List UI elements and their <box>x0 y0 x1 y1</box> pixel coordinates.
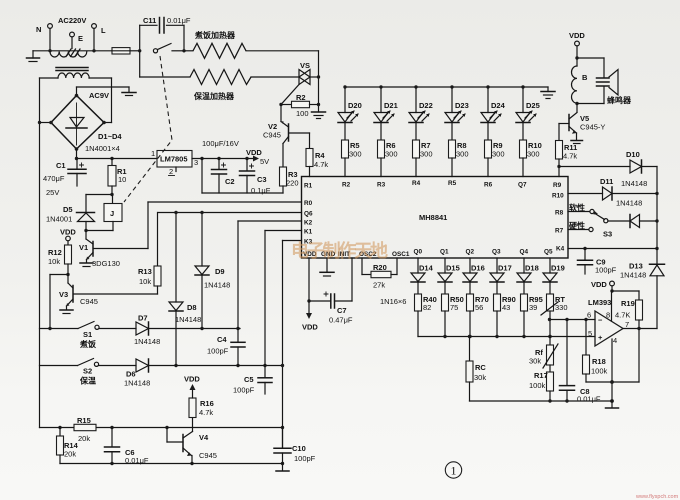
junction triac right <box>317 75 320 78</box>
svg-text:300: 300 <box>492 150 505 159</box>
svg-text:10k: 10k <box>48 257 60 266</box>
svg-text:4.7k: 4.7k <box>314 160 328 169</box>
svg-text:1: 1 <box>151 149 155 158</box>
svg-text:R9: R9 <box>553 182 562 189</box>
resistor R40 <box>415 294 422 337</box>
wire pin6 line <box>548 318 595 321</box>
svg-text:300: 300 <box>349 150 362 159</box>
LED D20 <box>338 87 358 140</box>
svg-text:1N4148: 1N4148 <box>621 179 647 188</box>
diode D14 <box>411 258 425 294</box>
svg-text:R16: R16 <box>200 399 214 408</box>
diode D9 <box>195 213 209 329</box>
resistor R8 <box>449 140 456 177</box>
resistor R50 <box>442 294 449 337</box>
wire R12 to S1 <box>50 275 68 329</box>
bridge rectifier D1-D4 <box>51 96 104 150</box>
resistor R1 <box>108 159 116 195</box>
svg-text:27k: 27k <box>373 281 385 290</box>
svg-text:R4: R4 <box>315 151 325 160</box>
bridge inner diode <box>66 103 87 145</box>
wire 5V rail <box>192 156 259 162</box>
wire resistor bottom rail <box>418 335 595 338</box>
svg-text:C945: C945 <box>199 451 217 460</box>
pin 2 <box>169 167 177 176</box>
wire gnd rail LM393 <box>470 399 613 402</box>
svg-text:100k: 100k <box>591 367 608 376</box>
node L terminal <box>92 24 106 51</box>
capacitor C8 <box>560 320 575 402</box>
wire right bus upper <box>655 167 658 251</box>
svg-text:43: 43 <box>502 303 510 312</box>
wire R18 bottom <box>586 329 639 383</box>
svg-text:D8: D8 <box>187 303 197 312</box>
ground below R2 <box>312 105 326 119</box>
wire R7 pin hard <box>568 227 593 231</box>
resistor R4 <box>306 149 313 177</box>
svg-text:R2: R2 <box>342 182 351 189</box>
svg-text:4.7K: 4.7K <box>615 311 630 320</box>
svg-text:0.1μF: 0.1μF <box>251 186 271 195</box>
IC pin labels left <box>304 183 313 246</box>
wire bottom gnd rail <box>60 462 284 465</box>
node VDD R12 <box>60 228 76 246</box>
wire gnd rail under C2 C3 <box>202 159 283 194</box>
wire K3 pin <box>283 240 302 242</box>
svg-text:R3: R3 <box>377 182 386 189</box>
capacitor C11 box <box>140 18 184 51</box>
junction C9 <box>583 247 586 250</box>
svg-text:6: 6 <box>587 311 591 320</box>
svg-text:470μF: 470μF <box>43 174 65 183</box>
resistor R20 <box>362 258 397 278</box>
svg-text:0.01μF: 0.01μF <box>167 16 191 25</box>
svg-text:1N4148: 1N4148 <box>124 379 150 388</box>
svg-text:R13: R13 <box>138 267 152 276</box>
svg-text:LM393: LM393 <box>588 298 611 307</box>
wire bridge bottom to rail <box>76 149 78 159</box>
svg-text:Q2: Q2 <box>466 249 475 256</box>
svg-text:VDD: VDD <box>184 375 200 384</box>
capacitor C9 <box>578 249 593 275</box>
svg-text:39: 39 <box>529 303 537 312</box>
resistor R10 <box>520 140 527 177</box>
LED D24 <box>481 87 501 140</box>
svg-text:R4: R4 <box>412 180 421 187</box>
junction N <box>48 49 51 52</box>
svg-text:8: 8 <box>606 311 610 320</box>
svg-text:D11: D11 <box>600 177 613 186</box>
bridge vertex dots <box>49 94 106 151</box>
opamp LM393 <box>595 311 623 346</box>
svg-text:L: L <box>101 26 106 35</box>
svg-text:Q4: Q4 <box>520 249 529 256</box>
svg-text:Q3: Q3 <box>492 249 501 256</box>
svg-text:硬性: 硬性 <box>569 221 585 231</box>
svg-text:R17: R17 <box>534 371 548 380</box>
svg-text:MH8841: MH8841 <box>419 213 447 222</box>
wire K2 pin <box>238 221 302 329</box>
svg-text:D13: D13 <box>629 262 643 271</box>
diode D6 <box>136 359 149 372</box>
node VDD LM393 <box>591 280 614 293</box>
junction RT chain <box>548 335 551 338</box>
wire heater2 to triac <box>251 76 299 78</box>
svg-text:1N16×6: 1N16×6 <box>380 297 406 306</box>
capacitor C6 <box>105 428 120 464</box>
capacitor C3 <box>240 159 255 194</box>
svg-text:D15: D15 <box>446 264 460 273</box>
regulator LM7805 <box>157 151 192 168</box>
ground LED rail <box>541 87 555 99</box>
svg-text:D20: D20 <box>348 101 362 110</box>
wire VDD pin IC <box>302 258 318 332</box>
svg-text:7: 7 <box>625 320 629 329</box>
wire D6 line <box>149 364 283 367</box>
svg-text:5: 5 <box>588 329 592 338</box>
resistor R11 <box>556 141 563 177</box>
resistor R3 <box>280 167 287 193</box>
svg-text:S1: S1 <box>83 330 92 339</box>
svg-text:Q0: Q0 <box>414 249 423 256</box>
svg-text:煮饭: 煮饭 <box>79 339 96 349</box>
svg-text:1N4001: 1N4001 <box>46 215 72 224</box>
LED D22 <box>409 87 429 140</box>
svg-text:3: 3 <box>194 158 198 167</box>
earth symbol at E <box>66 49 80 57</box>
svg-text:C7: C7 <box>337 306 347 315</box>
svg-text:1N4001×4: 1N4001×4 <box>85 144 120 153</box>
ground pin4 <box>606 401 619 408</box>
transistor V4 <box>167 418 193 464</box>
wire J bottom to D5 <box>84 229 113 232</box>
wire LED top rail <box>343 85 548 88</box>
IC pin labels bottom <box>303 249 553 259</box>
svg-text:D1~D4: D1~D4 <box>98 132 122 141</box>
diode D17 <box>490 258 504 294</box>
resistor R7 <box>413 140 420 177</box>
svg-text:C2: C2 <box>225 177 235 186</box>
svg-text:蜂鸣器: 蜂鸣器 <box>607 95 632 105</box>
wire R1 junction to J <box>86 193 114 204</box>
ground GND pin <box>320 258 334 276</box>
diode D18 <box>517 258 531 294</box>
svg-text:D14: D14 <box>419 264 434 273</box>
svg-text:300: 300 <box>420 150 433 159</box>
svg-text:AC220V: AC220V <box>58 16 86 25</box>
junction R2 right <box>317 103 320 106</box>
svg-text:56: 56 <box>475 303 483 312</box>
svg-text:R1: R1 <box>304 183 313 190</box>
svg-text:R12: R12 <box>48 248 62 257</box>
svg-text:电子制作天地: 电子制作天地 <box>291 240 388 261</box>
LED D21 <box>374 87 394 140</box>
resistor R9 <box>485 140 492 177</box>
svg-text:100k: 100k <box>529 381 546 390</box>
svg-text:D16: D16 <box>471 264 485 273</box>
switch power <box>138 44 186 53</box>
svg-text:1N4148: 1N4148 <box>620 271 646 280</box>
svg-text:AC9V: AC9V <box>89 91 109 100</box>
svg-text:5V: 5V <box>260 157 269 166</box>
transistor V1 <box>80 231 148 267</box>
heater2 resistor zigzag <box>190 70 251 85</box>
LED D23 <box>445 87 465 140</box>
resistor R2 <box>281 101 319 107</box>
svg-text:R8: R8 <box>555 210 564 217</box>
junction C10 top <box>281 426 284 429</box>
svg-text:300: 300 <box>456 150 469 159</box>
junction R12 bottom <box>66 273 69 276</box>
svg-text:D21: D21 <box>384 101 398 110</box>
svg-text:1N4148: 1N4148 <box>204 281 230 290</box>
svg-text:−: − <box>598 316 603 325</box>
svg-text:330: 330 <box>555 303 568 312</box>
svg-text:R15: R15 <box>77 416 91 425</box>
wire bottom rail R15 <box>40 426 283 429</box>
svg-text:K4: K4 <box>556 246 565 253</box>
wire mains horizontal <box>33 50 112 52</box>
relay J <box>104 204 122 231</box>
svg-text:+: + <box>598 333 603 342</box>
svg-text:R20: R20 <box>373 263 387 272</box>
svg-text:4.7k: 4.7k <box>199 408 213 417</box>
IC pin labels right <box>552 193 565 253</box>
resistor R13 <box>154 213 161 295</box>
page number 1 <box>445 462 461 478</box>
ground at N <box>27 51 40 62</box>
IC pin labels top <box>342 180 562 189</box>
capacitor C4 <box>231 329 245 366</box>
resistor RC <box>466 335 473 401</box>
svg-text:VDD: VDD <box>246 148 262 157</box>
svg-text:LM7805: LM7805 <box>160 155 188 164</box>
svg-text:D19: D19 <box>551 264 565 273</box>
svg-text:D6: D6 <box>126 370 136 379</box>
svg-text:220: 220 <box>286 179 299 188</box>
wire output pin7 <box>623 327 657 330</box>
svg-text:30k: 30k <box>529 357 541 366</box>
IC MH8841 <box>302 177 569 259</box>
resistor R17 <box>547 372 554 401</box>
svg-text:C3: C3 <box>257 175 267 184</box>
wire secondary right to bridge <box>104 78 112 123</box>
svg-text:R2: R2 <box>296 93 306 102</box>
switch S1 <box>40 322 137 331</box>
svg-text:煮饭加热器: 煮饭加热器 <box>194 30 236 40</box>
svg-text:VDD: VDD <box>569 31 585 40</box>
svg-text:D22: D22 <box>419 101 433 110</box>
svg-text:保温: 保温 <box>79 376 96 386</box>
svg-text:1N4148: 1N4148 <box>175 315 201 324</box>
svg-text:C945: C945 <box>80 297 98 306</box>
node N terminal <box>36 24 52 51</box>
transistor V2 <box>281 105 310 168</box>
wire heater1 to corner <box>246 51 319 105</box>
wire left rail <box>39 78 41 428</box>
svg-text:300: 300 <box>527 150 540 159</box>
wire keepwarm branch <box>140 51 190 77</box>
transformer core <box>56 68 88 71</box>
svg-text:D17: D17 <box>498 264 512 273</box>
svg-text:25V: 25V <box>46 188 59 197</box>
transformer T secondary <box>40 73 112 78</box>
transistor V5 <box>559 113 583 144</box>
capacitor C5 <box>258 366 272 395</box>
resistor R5 <box>342 140 349 177</box>
svg-text:www.flyspch.com: www.flyspch.com <box>635 494 679 500</box>
svg-text:R0: R0 <box>304 200 313 207</box>
svg-text:VDD: VDD <box>60 228 76 237</box>
wire Q6 pin <box>158 211 302 214</box>
diode D13 <box>650 249 665 329</box>
svg-text:2: 2 <box>169 167 173 176</box>
diode D16 <box>463 258 477 294</box>
diode D5 <box>77 195 95 231</box>
svg-text:1N4148: 1N4148 <box>134 337 160 346</box>
switch S3 <box>594 211 631 223</box>
diode D15 <box>438 258 452 294</box>
svg-text:K1: K1 <box>304 229 313 236</box>
wire switch to heater1 <box>184 50 193 52</box>
svg-text:C1: C1 <box>56 161 66 170</box>
svg-text:C4: C4 <box>217 335 227 344</box>
svg-text:D18: D18 <box>525 264 539 273</box>
svg-text:82: 82 <box>423 303 431 312</box>
svg-text:100μF/16V: 100μF/16V <box>202 139 239 148</box>
svg-text:100pF: 100pF <box>595 266 617 275</box>
resistor RT <box>541 294 558 337</box>
svg-text:R18: R18 <box>592 357 606 366</box>
capacitor C1 <box>68 159 86 187</box>
svg-text:D5: D5 <box>63 205 73 214</box>
svg-text:V4: V4 <box>199 433 209 442</box>
svg-text:4: 4 <box>613 336 617 345</box>
svg-text:C945-Y: C945-Y <box>580 123 605 132</box>
dashed linkage relay to switch <box>124 56 172 202</box>
junction L <box>92 49 95 52</box>
svg-text:Q5: Q5 <box>544 249 553 256</box>
svg-text:4.7k: 4.7k <box>563 152 577 161</box>
svg-text:30k: 30k <box>474 373 486 382</box>
svg-text:D24: D24 <box>491 101 506 110</box>
junction R2 left <box>279 103 282 106</box>
resistor R95 <box>521 294 528 337</box>
svg-text:J: J <box>110 209 114 218</box>
resistor R16 <box>189 384 196 418</box>
svg-text:D23: D23 <box>455 101 469 110</box>
svg-text:100pF: 100pF <box>233 386 255 395</box>
svg-text:VS: VS <box>300 61 310 70</box>
transistor V3 <box>60 275 158 314</box>
wire pin8 <box>611 291 613 321</box>
svg-text:VDD: VDD <box>302 323 318 332</box>
svg-text:VDD: VDD <box>591 280 607 289</box>
svg-text:C5: C5 <box>244 375 254 384</box>
svg-text:0.47μF: 0.47μF <box>329 316 353 325</box>
svg-text:K2: K2 <box>304 220 313 227</box>
svg-text:R6: R6 <box>484 182 493 189</box>
resistor R18 <box>583 320 590 383</box>
svg-text:Q6: Q6 <box>304 211 313 218</box>
svg-text:软性: 软性 <box>569 203 585 213</box>
wire R0 pin <box>148 202 302 249</box>
LED D25 <box>516 87 536 140</box>
svg-text:D9: D9 <box>215 267 225 276</box>
svg-text:C11: C11 <box>143 16 156 25</box>
transformer T primary <box>50 52 87 58</box>
svg-text:保温加热器: 保温加热器 <box>193 91 235 101</box>
svg-text:R5: R5 <box>448 180 457 187</box>
svg-text:N: N <box>36 25 41 34</box>
svg-text:V3: V3 <box>59 290 68 299</box>
svg-text:100pF: 100pF <box>207 347 229 356</box>
svg-text:Q1: Q1 <box>440 249 449 256</box>
svg-text:D10: D10 <box>626 150 640 159</box>
AC9V box and earth <box>77 87 137 96</box>
svg-text:RC: RC <box>475 363 486 372</box>
fuse <box>112 48 140 54</box>
diode D10 <box>559 160 657 173</box>
wire pin4 <box>610 339 614 403</box>
svg-text:C10: C10 <box>292 444 306 453</box>
svg-text:75: 75 <box>450 303 458 312</box>
wire DC rail to LM7805 <box>75 157 157 160</box>
svg-text:20k: 20k <box>64 450 76 459</box>
resistor R19 <box>612 291 643 329</box>
resistor R15 <box>74 424 96 430</box>
svg-text:B: B <box>582 73 588 82</box>
svg-text:D7: D7 <box>138 314 148 323</box>
wire K1 pin <box>265 231 302 366</box>
svg-text:V1: V1 <box>79 243 88 252</box>
svg-text:10k: 10k <box>139 277 151 286</box>
svg-text:20k: 20k <box>78 434 90 443</box>
wire D7 line <box>149 327 241 330</box>
svg-text:C945: C945 <box>263 131 281 140</box>
inductor B <box>572 66 577 112</box>
svg-text:100: 100 <box>296 109 309 118</box>
svg-text:3DG130: 3DG130 <box>92 259 120 268</box>
svg-text:E: E <box>78 34 83 43</box>
buzzer speaker <box>577 58 618 104</box>
diode D11 <box>568 187 657 200</box>
svg-text:D25: D25 <box>526 101 540 110</box>
svg-text:300: 300 <box>385 150 398 159</box>
wire K3 bus <box>281 241 284 449</box>
svg-text:100pF: 100pF <box>294 454 316 463</box>
wire R8 pin soft <box>568 209 594 213</box>
svg-text:1: 1 <box>451 464 457 478</box>
svg-text:S3: S3 <box>603 230 612 239</box>
capacitor C10 <box>274 428 291 472</box>
diode D8 <box>169 213 183 366</box>
svg-text:OSC1: OSC1 <box>392 251 410 258</box>
svg-text:1N4148: 1N4148 <box>616 199 642 208</box>
capacitor C7 <box>309 258 352 308</box>
resistor R90 <box>494 294 501 337</box>
wire K4 pin <box>568 248 657 250</box>
svg-text:10: 10 <box>118 175 126 184</box>
rheostat Rf <box>543 337 558 373</box>
wire rail to bridge left <box>38 121 51 124</box>
svg-text:R7: R7 <box>555 228 564 235</box>
diode S3 right <box>630 215 657 228</box>
svg-text:Q7: Q7 <box>518 182 527 189</box>
diode D19 <box>543 258 557 294</box>
capacitor C2 <box>212 159 227 194</box>
node VDD buzzer <box>569 31 585 66</box>
